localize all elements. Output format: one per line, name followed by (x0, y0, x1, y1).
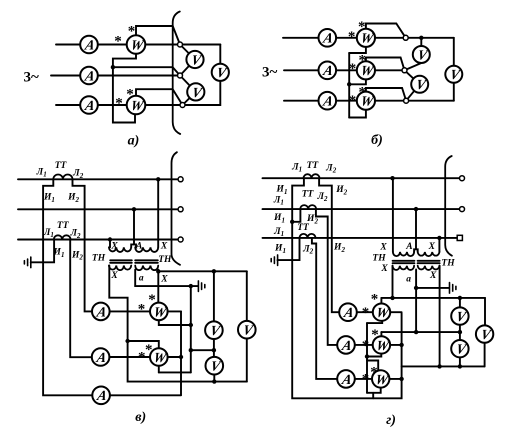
svg-text:*: * (370, 364, 378, 380)
svg-text:А: А (135, 242, 142, 252)
svg-text:ТТ: ТТ (302, 190, 315, 200)
svg-text:*: * (362, 305, 370, 321)
svg-text:*: * (371, 292, 379, 308)
svg-text:*: * (148, 292, 156, 308)
svg-text:в): в) (135, 410, 146, 425)
svg-text:ТТ: ТТ (57, 221, 70, 231)
svg-text:X: X (429, 271, 437, 281)
svg-text:а): а) (128, 134, 140, 149)
svg-text:*: * (362, 338, 370, 354)
svg-text:*: * (359, 52, 367, 68)
svg-text:*: * (138, 302, 146, 318)
svg-text:ТН: ТН (441, 259, 455, 269)
svg-text:X: X (428, 242, 436, 252)
svg-text:*: * (371, 327, 379, 343)
svg-text:3~: 3~ (262, 64, 278, 80)
svg-text:X: X (160, 275, 168, 285)
svg-text:X: X (379, 242, 387, 252)
svg-text:X: X (380, 264, 388, 274)
svg-text:*: * (126, 86, 134, 102)
svg-text:*: * (128, 23, 136, 39)
svg-text:ТН: ТН (92, 254, 106, 264)
svg-text:ТТ: ТТ (297, 223, 310, 233)
svg-text:*: * (359, 84, 367, 100)
svg-text:X: X (110, 271, 118, 281)
svg-text:*: * (114, 34, 122, 50)
svg-text:б): б) (371, 133, 383, 148)
svg-text:*: * (349, 61, 357, 77)
svg-text:ТТ: ТТ (307, 161, 320, 171)
svg-text:а: а (406, 274, 411, 284)
svg-text:X: X (110, 242, 118, 252)
svg-text:г): г) (386, 413, 396, 428)
svg-text:X: X (160, 241, 168, 251)
svg-text:А: А (405, 242, 412, 252)
svg-text:*: * (348, 29, 356, 45)
svg-text:а: а (139, 274, 144, 284)
svg-text:ТН: ТН (372, 254, 386, 264)
svg-text:*: * (349, 93, 357, 109)
svg-text:3~: 3~ (24, 70, 40, 86)
svg-text:ТТ: ТТ (55, 161, 68, 171)
svg-text:*: * (145, 342, 153, 358)
svg-text:*: * (362, 372, 370, 388)
svg-text:*: * (115, 95, 123, 111)
svg-text:*: * (358, 19, 366, 35)
svg-text:ТН: ТН (158, 255, 172, 265)
